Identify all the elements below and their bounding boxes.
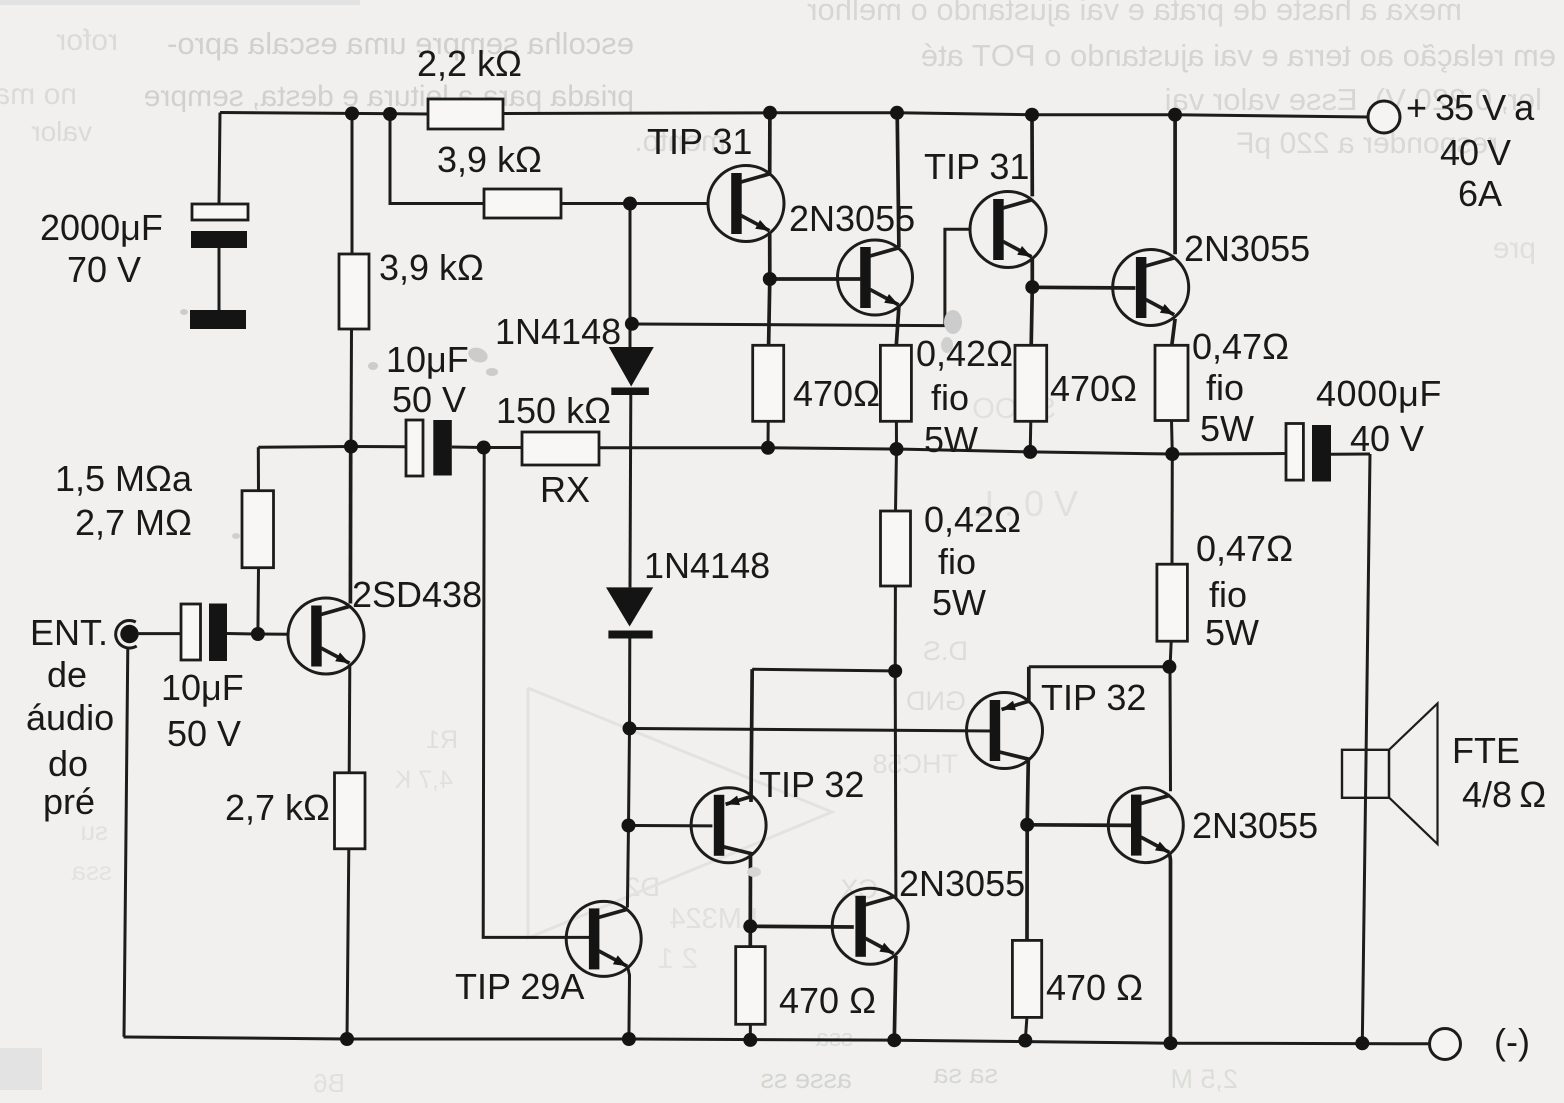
svg-text:3,9 kΩ: 3,9 kΩ xyxy=(437,139,542,180)
svg-text:TIP 29A: TIP 29A xyxy=(455,966,584,1007)
svg-text:2N3055: 2N3055 xyxy=(1184,228,1310,269)
svg-text:0,42Ω: 0,42Ω xyxy=(916,333,1013,374)
svg-text:10μF: 10μF xyxy=(386,339,469,380)
svg-text:B6: B6 xyxy=(313,1068,345,1098)
svg-text:2N3055: 2N3055 xyxy=(899,863,1025,904)
svg-text:10μF: 10μF xyxy=(161,667,244,708)
svg-text:mexa a haste de prata e vai aj: mexa a haste de prata e vai ajustando o … xyxy=(807,0,1462,27)
svg-text:fio: fio xyxy=(931,377,969,418)
svg-text:FTE: FTE xyxy=(1452,730,1520,771)
svg-text:fio: fio xyxy=(938,541,976,582)
svg-text:5W: 5W xyxy=(1205,612,1259,653)
svg-text:470 Ω: 470 Ω xyxy=(1046,967,1143,1008)
svg-text:fio: fio xyxy=(1206,367,1244,408)
svg-text:2 1: 2 1 xyxy=(658,943,698,975)
svg-text:1,5 MΩa: 1,5 MΩa xyxy=(55,458,193,499)
svg-text:470Ω: 470Ω xyxy=(793,373,880,414)
svg-text:fio: fio xyxy=(1209,574,1247,615)
svg-text:3,9 kΩ: 3,9 kΩ xyxy=(379,247,484,288)
svg-text:70 V: 70 V xyxy=(67,249,141,290)
svg-text:0,47Ω: 0,47Ω xyxy=(1196,528,1293,569)
svg-text:rofor: rofor xyxy=(56,24,118,57)
svg-text:pre: pre xyxy=(1493,232,1536,265)
svg-text:470Ω: 470Ω xyxy=(1050,368,1137,409)
svg-text:D.S: D.S xyxy=(923,636,968,666)
svg-text:4,7 K: 4,7 K xyxy=(394,766,453,794)
svg-text:em relação ao terra e vai ajus: em relação ao terra e vai ajustando o PO… xyxy=(921,38,1556,73)
svg-text:de: de xyxy=(47,654,87,695)
svg-text:THC58: THC58 xyxy=(872,749,958,779)
svg-text:50 V: 50 V xyxy=(392,379,466,420)
svg-text:0,47Ω: 0,47Ω xyxy=(1192,326,1289,367)
svg-text:asse ss: asse ss xyxy=(760,1064,852,1094)
svg-text:50 V: 50 V xyxy=(167,713,241,754)
svg-text:2,7 kΩ: 2,7 kΩ xyxy=(225,787,330,828)
svg-text:valor: valor xyxy=(31,116,92,147)
svg-text:1N4148: 1N4148 xyxy=(495,311,621,352)
svg-text:0,42Ω: 0,42Ω xyxy=(924,499,1021,540)
svg-text:TIP 32: TIP 32 xyxy=(759,764,864,805)
svg-text:áudio: áudio xyxy=(26,697,114,738)
svg-text:R1: R1 xyxy=(426,726,458,754)
svg-text:2SD438: 2SD438 xyxy=(352,574,482,615)
svg-text:do: do xyxy=(48,743,88,784)
svg-text:2,5 M: 2,5 M xyxy=(1170,1064,1238,1094)
svg-text:2,2 kΩ: 2,2 kΩ xyxy=(417,43,522,84)
svg-text:GND: GND xyxy=(906,686,966,716)
svg-text:2,7 MΩ: 2,7 MΩ xyxy=(75,502,192,543)
svg-text:pré: pré xyxy=(43,781,95,822)
svg-text:150 kΩ: 150 kΩ xyxy=(496,390,611,431)
svg-text:6A: 6A xyxy=(1458,173,1502,214)
svg-text:2N3055: 2N3055 xyxy=(789,198,915,239)
svg-text:TIP 31: TIP 31 xyxy=(924,146,1029,187)
svg-text:2000μF: 2000μF xyxy=(40,207,163,248)
svg-text:5W: 5W xyxy=(932,582,986,623)
svg-text:ssa: ssa xyxy=(71,856,112,886)
svg-text:40 V: 40 V xyxy=(1440,132,1511,173)
svg-text:470 Ω: 470 Ω xyxy=(779,980,876,1021)
svg-text:+ 35 V a: + 35 V a xyxy=(1406,87,1535,128)
svg-text:2N3055: 2N3055 xyxy=(1192,805,1318,846)
svg-text:(-): (-) xyxy=(1494,1021,1530,1062)
svg-text:TIP 32: TIP 32 xyxy=(1041,677,1146,718)
svg-text:TIP 31: TIP 31 xyxy=(647,121,752,162)
svg-text:ENT.: ENT. xyxy=(30,612,108,653)
svg-text:40 V: 40 V xyxy=(1350,418,1424,459)
svg-text:4000μF: 4000μF xyxy=(1316,373,1442,414)
svg-text:escolha sempre uma escala apro: escolha sempre uma escala apro- xyxy=(167,26,634,61)
svg-text:1N4148: 1N4148 xyxy=(644,545,770,586)
svg-text:sa sa: sa sa xyxy=(932,1059,998,1089)
svg-text:4/8 Ω: 4/8 Ω xyxy=(1462,774,1546,815)
svg-text:5W: 5W xyxy=(924,419,978,460)
svg-text:5W: 5W xyxy=(1200,408,1254,449)
svg-text:no ma: no ma xyxy=(0,78,77,111)
svg-text:RX: RX xyxy=(540,469,590,510)
